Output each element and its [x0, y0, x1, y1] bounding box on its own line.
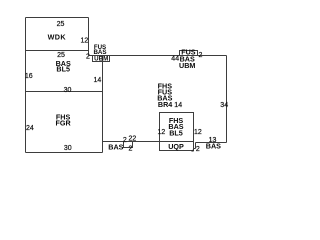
wire: WDK top wall	[26, 17, 89, 19]
svg-text:12: 12	[194, 129, 202, 136]
svg-text:BAS: BAS	[108, 143, 123, 152]
svg-text:2: 2	[129, 145, 133, 152]
svg-text:2: 2	[198, 52, 202, 59]
svg-text:UQP: UQP	[168, 142, 184, 151]
svg-text:24: 24	[26, 125, 34, 132]
svg-text:UBM: UBM	[94, 56, 108, 63]
wire: main top wall	[89, 55, 227, 57]
svg-text:WDK: WDK	[48, 33, 67, 42]
wire: bottom right wall	[196, 142, 227, 144]
svg-text:12: 12	[81, 38, 89, 45]
node: BAS 2-step bump box	[124, 142, 133, 148]
wire: WDK/BAS divider wall	[26, 50, 89, 52]
svg-text:FGR: FGR	[56, 119, 72, 128]
tick: UQP corner mark	[191, 149, 193, 151]
svg-text:2: 2	[86, 54, 90, 61]
svg-text:44: 44	[171, 55, 179, 62]
wire: right outer wall	[226, 56, 228, 143]
svg-text:34: 34	[220, 102, 228, 109]
wire: WDK right wall	[88, 18, 90, 56]
svg-text:BR4: BR4	[158, 100, 172, 109]
svg-text:16: 16	[25, 73, 33, 80]
node: FUS bump box	[180, 51, 198, 56]
svg-text:30: 30	[64, 145, 72, 152]
svg-text:UBM: UBM	[179, 61, 195, 70]
svg-text:14: 14	[174, 102, 182, 109]
svg-text:BL5: BL5	[56, 65, 70, 74]
wire: center vertical wall	[102, 56, 104, 153]
wire: left outer wall	[25, 18, 27, 153]
svg-text:30: 30	[64, 87, 72, 94]
node: inner FHS/BAS/BL5 box	[160, 113, 194, 151]
wire: garage bottom wall	[26, 152, 103, 154]
svg-text:25: 25	[57, 52, 65, 59]
svg-text:BAS: BAS	[206, 142, 221, 151]
svg-text:14: 14	[94, 77, 102, 84]
wire: BAS BL5 bottom wall	[26, 91, 103, 93]
svg-text:22: 22	[129, 136, 137, 143]
node: UBM under-box	[93, 56, 110, 62]
wire: bottom right step link	[194, 148, 196, 150]
svg-text:2: 2	[196, 146, 200, 153]
wire: UQP divider	[160, 141, 194, 143]
wire: bottom right 2-step tick	[195, 143, 197, 149]
wire: main bottom-left wall	[103, 141, 160, 143]
svg-text:BL5: BL5	[169, 128, 183, 137]
svg-text:25: 25	[57, 21, 65, 28]
svg-text:12: 12	[158, 129, 166, 136]
